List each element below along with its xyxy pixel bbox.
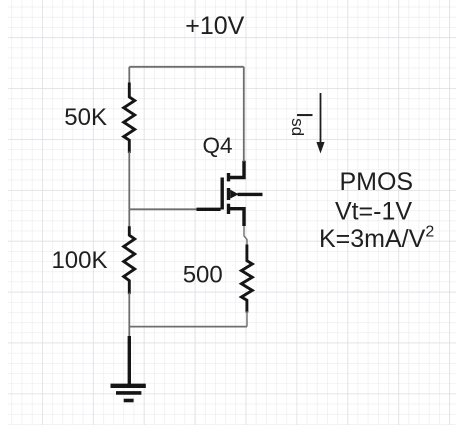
current arrow Isd: [316, 93, 324, 154]
resistor 100K: [124, 228, 135, 293]
resistor 50K: [124, 84, 135, 152]
wire left vertical mid (50K to gate node): [128, 152, 130, 210]
svg-text:Vt=-1V: Vt=-1V: [335, 198, 412, 226]
body arrow: [230, 190, 238, 199]
svg-text:50K: 50K: [64, 104, 107, 131]
wire source to 500 resistor: [244, 226, 247, 247]
gate lead thick: [197, 208, 221, 211]
wire bottom rail: [129, 326, 247, 328]
wire 500 to bottom rail: [246, 311, 248, 327]
gate bar: [220, 178, 223, 210]
wire left vertical bottom (100K to ground node): [128, 293, 130, 337]
wire top rail: [129, 66, 244, 68]
ground: [111, 336, 146, 401]
channel segment top: [227, 173, 230, 181]
channel segment middle: [227, 188, 230, 200]
svg-text:100K: 100K: [51, 247, 107, 274]
drain lead: [229, 161, 245, 178]
channel segment bottom: [227, 204, 230, 214]
body lead: [238, 193, 263, 196]
wire drain vertical (rail to Q4): [243, 67, 245, 162]
wire gate horizontal: [129, 208, 197, 210]
transistor Q4 PMOS: [197, 161, 263, 226]
svg-text:Q4: Q4: [203, 133, 233, 158]
svg-text:+10V: +10V: [185, 12, 244, 40]
resistor 500: [241, 246, 252, 311]
svg-text:500: 500: [183, 262, 223, 289]
source lead: [229, 209, 245, 226]
wire left vertical lower (gate node to 100K): [128, 209, 130, 228]
svg-text:K=3mA/V2: K=3mA/V2: [319, 224, 434, 254]
wire left vertical top (rail to 50K): [128, 67, 130, 85]
svg-text:PMOS: PMOS: [339, 168, 413, 196]
